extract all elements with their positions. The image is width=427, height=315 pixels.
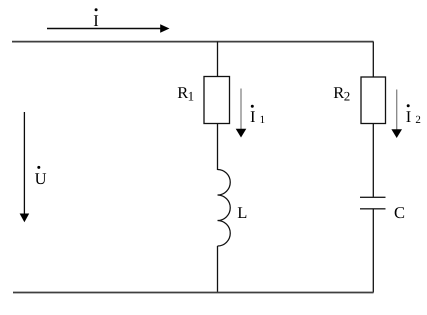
- label R2: [333, 83, 350, 103]
- capacitor C: [360, 197, 386, 209]
- wire C to bottom bus: [372, 209, 374, 293]
- wire R1 to L: [217, 124, 219, 171]
- svg-text:2: 2: [415, 114, 421, 126]
- label I (dot): [93, 8, 99, 30]
- svg-text:R: R: [333, 83, 344, 102]
- wire top bus: [12, 41, 374, 43]
- resistor R2: [361, 77, 386, 124]
- voltage arrow U: [20, 112, 30, 222]
- label I1 (dot): [250, 105, 265, 126]
- svg-text:U: U: [35, 169, 47, 188]
- svg-text:2: 2: [344, 88, 351, 103]
- svg-text:I: I: [250, 107, 256, 126]
- svg-text:C: C: [394, 203, 405, 222]
- svg-text:I: I: [93, 11, 99, 30]
- wire bottom bus: [13, 292, 374, 294]
- current arrow I1: [236, 89, 247, 138]
- resistor R1: [204, 77, 230, 124]
- label R1: [177, 83, 194, 103]
- label I2 (dot): [406, 104, 421, 126]
- svg-text:L: L: [237, 203, 247, 222]
- label U (dot): [35, 166, 47, 188]
- inductor L: [218, 170, 231, 247]
- wire right branch top: [372, 42, 374, 77]
- wire R2 to C: [372, 124, 374, 198]
- current arrow I: [47, 24, 170, 33]
- wire L to bottom bus: [217, 246, 219, 293]
- wire middle branch top: [217, 42, 219, 77]
- current arrow I2: [391, 90, 402, 139]
- svg-text:1: 1: [260, 114, 266, 126]
- svg-text:I: I: [406, 107, 412, 126]
- svg-text:1: 1: [188, 88, 195, 103]
